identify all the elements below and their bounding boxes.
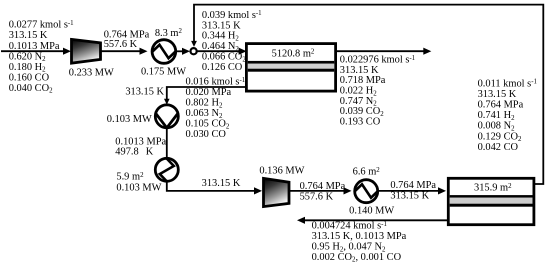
svg-text:0.020 MPa: 0.020 MPa bbox=[186, 87, 232, 98]
label permeate stream composition bbox=[186, 77, 246, 141]
label stream after K2: 0.764 MPa 557.6 K bbox=[300, 181, 346, 202]
svg-text:0.042 CO: 0.042 CO bbox=[478, 142, 519, 153]
wire compressor K2 to heat exchanger E3 bbox=[289, 187, 352, 194]
wire junction to reactor R1 bbox=[197, 48, 247, 55]
svg-text:497.8K: 497.8K bbox=[115, 147, 154, 158]
separator S1 membrane module 315.9 m2 bbox=[448, 178, 534, 224]
heat exchanger E2 bbox=[155, 158, 178, 181]
wire feed stream into compressor bbox=[1, 48, 71, 55]
wire reactor R1 permeate outlet down to pump P1 bbox=[164, 87, 246, 105]
heat exchanger E1 bbox=[152, 40, 176, 64]
svg-text:0.175 MW: 0.175 MW bbox=[141, 66, 186, 77]
svg-text:6.6 m2: 6.6 m2 bbox=[353, 167, 381, 178]
svg-text:313.15 K, 0.1013 MPa: 313.15 K, 0.1013 MPa bbox=[312, 231, 407, 242]
compressor K1 bbox=[72, 39, 101, 63]
label feed stream composition bbox=[9, 20, 74, 95]
svg-text:557.6 K: 557.6 K bbox=[104, 39, 138, 50]
wire separator S1 permeate outlet arrow to the left bbox=[297, 217, 448, 224]
label stream into S1: 0.764 MPa 313.15 K bbox=[390, 180, 436, 201]
svg-text:0.004724 kmol s-1: 0.004724 kmol s-1 bbox=[312, 221, 388, 232]
wire E1 to mixing junction bbox=[176, 48, 191, 55]
wire recycle stream from separator top: right riser, top run, drop to junction bbox=[191, 5, 543, 184]
svg-text:313.15 K: 313.15 K bbox=[202, 20, 241, 31]
svg-text:0.233 MW: 0.233 MW bbox=[69, 67, 114, 78]
svg-text:0.126 CO: 0.126 CO bbox=[202, 62, 243, 73]
label stream after P1: 0.1013 MPa 497.8 K bbox=[115, 136, 166, 157]
svg-text:313.15 K: 313.15 K bbox=[9, 30, 48, 41]
reactor R1 membrane module 5120.8 m2 bbox=[246, 44, 335, 92]
label retentate stream composition bbox=[340, 55, 416, 128]
svg-text:557.6 K: 557.6 K bbox=[300, 191, 334, 202]
svg-text:0.039 kmol s-1: 0.039 kmol s-1 bbox=[202, 10, 262, 21]
label stream after K1: 0.764 MPa 557.6 K bbox=[104, 30, 150, 50]
svg-text:313.15 K: 313.15 K bbox=[390, 191, 429, 202]
label permeate product composition (bottom) bbox=[312, 221, 407, 264]
svg-text:0.193 CO: 0.193 CO bbox=[340, 116, 381, 127]
svg-text:0.016 kmol s-1: 0.016 kmol s-1 bbox=[186, 77, 246, 88]
svg-text:0.140 MW: 0.140 MW bbox=[349, 205, 394, 216]
svg-text:0.0277 kmol s-1: 0.0277 kmol s-1 bbox=[9, 20, 74, 31]
svg-text:5120.8 m2: 5120.8 m2 bbox=[272, 48, 315, 59]
compressor K2 bbox=[264, 178, 290, 206]
svg-text:313.15 K: 313.15 K bbox=[478, 89, 517, 100]
svg-text:0.002 CO2, 0.001 CO: 0.002 CO2, 0.001 CO bbox=[312, 252, 402, 264]
wire compressor K1 to heat exchanger E1 bbox=[101, 48, 148, 55]
svg-text:0.030 CO: 0.030 CO bbox=[186, 129, 227, 140]
svg-text:0.764 MPa: 0.764 MPa bbox=[478, 100, 524, 111]
wire E3 to separator S1 bbox=[378, 187, 446, 194]
svg-text:313.15 K: 313.15 K bbox=[202, 178, 241, 189]
svg-text:0.103 MW: 0.103 MW bbox=[107, 114, 152, 125]
label product stream composition (right) bbox=[478, 78, 538, 153]
heat exchanger E3 bbox=[355, 180, 378, 203]
svg-text:313.15 K: 313.15 K bbox=[125, 87, 164, 98]
svg-text:0.136 MW: 0.136 MW bbox=[259, 165, 304, 176]
svg-text:0.1013 MPa: 0.1013 MPa bbox=[9, 41, 60, 52]
label recycle stream composition bbox=[202, 10, 262, 73]
wire E2 down and right to compressor K2 bbox=[167, 181, 262, 194]
wire reactor R1 retentate outlet arrow bbox=[336, 48, 432, 55]
svg-text:0.040 CO2: 0.040 CO2 bbox=[9, 83, 53, 95]
svg-text:0.103 MW: 0.103 MW bbox=[116, 182, 161, 193]
svg-text:0.160 CO: 0.160 CO bbox=[9, 72, 50, 83]
svg-text:5.9 m2: 5.9 m2 bbox=[116, 172, 144, 183]
pump P1 bbox=[155, 105, 178, 128]
svg-text:8.3 m2: 8.3 m2 bbox=[155, 28, 183, 39]
svg-text:0.011 kmol s-1: 0.011 kmol s-1 bbox=[478, 78, 538, 89]
wire pump P1 to heat exchanger E2 bbox=[166, 128, 168, 158]
svg-text:315.9 m2: 315.9 m2 bbox=[474, 183, 512, 194]
node mixing junction bbox=[191, 48, 197, 54]
